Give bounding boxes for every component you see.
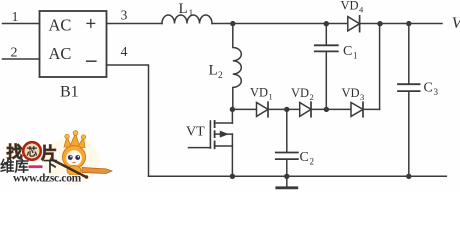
svg-text:芯: 芯 — [26, 145, 37, 159]
svg-text:VD: VD — [342, 86, 360, 100]
capacitor C3 — [398, 24, 420, 177]
svg-text:2: 2 — [310, 157, 315, 167]
node VD4 cathode — [377, 21, 382, 26]
svg-text:3: 3 — [434, 87, 439, 97]
svg-text:3: 3 — [360, 92, 364, 102]
transistor VT (MOSFET) — [189, 109, 233, 176]
svg-text:1: 1 — [12, 9, 19, 24]
capacitor C1 — [315, 24, 338, 110]
node C2 top — [284, 107, 289, 112]
node VD1 anode / VT drain — [230, 107, 235, 112]
watermark logo — [0, 131, 112, 185]
capacitor C2 — [276, 109, 298, 176]
svg-text:VD: VD — [291, 86, 309, 100]
wire pin3 to L1 — [107, 23, 163, 25]
diode VD4 — [348, 16, 360, 32]
svg-text:3: 3 — [121, 8, 128, 23]
node C1 bottom — [324, 107, 329, 112]
svg-text:L: L — [209, 63, 218, 79]
wire pin4 left loop — [107, 65, 149, 176]
node C1 top — [324, 21, 329, 26]
svg-text:AC: AC — [49, 16, 72, 35]
wire VD3 riser — [379, 24, 381, 110]
node C2 bottom / ground — [284, 174, 289, 179]
svg-text:4: 4 — [121, 44, 128, 59]
svg-text:2: 2 — [11, 46, 18, 61]
node VT source — [230, 174, 235, 179]
svg-text:C: C — [424, 81, 433, 96]
svg-text:2: 2 — [310, 92, 314, 102]
node L1/L2 junction — [230, 21, 235, 26]
plus sign — [86, 19, 95, 28]
wire top rail — [212, 23, 442, 25]
diode VD3 — [351, 102, 363, 117]
svg-text:C: C — [300, 150, 309, 165]
svg-text:4: 4 — [359, 4, 364, 14]
svg-text:2: 2 — [218, 71, 223, 81]
inductor L1 — [162, 15, 212, 24]
node C3 top — [406, 21, 411, 26]
svg-text:VT: VT — [186, 125, 205, 140]
ground — [277, 176, 297, 188]
svg-text:1: 1 — [353, 51, 358, 61]
node C3 bottom — [406, 174, 411, 179]
svg-text:AC: AC — [49, 44, 72, 63]
transformer B1 box — [40, 11, 107, 77]
svg-text:L: L — [179, 1, 188, 17]
wire diode row — [232, 108, 379, 110]
inductor L2 — [233, 24, 242, 110]
svg-text:VD: VD — [250, 86, 268, 100]
svg-text:B1: B1 — [60, 84, 79, 101]
svg-text:C: C — [343, 44, 352, 59]
diode VD1 — [257, 102, 269, 117]
svg-text:1: 1 — [189, 9, 194, 19]
diode VD2 — [300, 102, 311, 117]
minus sign — [86, 60, 97, 62]
svg-text:V: V — [452, 15, 460, 32]
mascot — [50, 131, 112, 179]
svg-text:www.dzsc.com: www.dzsc.com — [13, 173, 82, 185]
svg-text:1: 1 — [269, 92, 273, 102]
svg-text:VD: VD — [341, 0, 359, 12]
wire pin1 lead — [3, 23, 40, 25]
wire pin2 lead — [3, 58, 40, 60]
wire bottom rail — [149, 175, 447, 177]
